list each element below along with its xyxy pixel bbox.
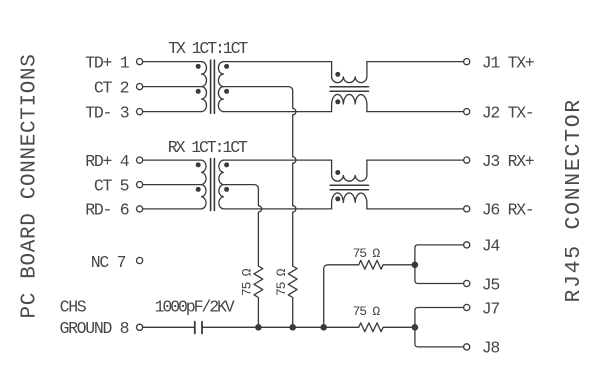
transformer T1 TX primary winding — [202, 62, 207, 112]
J8 circle — [464, 344, 470, 350]
svg-text:J8: J8 — [482, 339, 500, 358]
wire choke L1 to J2 — [367, 111, 464, 113]
ground bus wire with resistor R4 75 ohm — [202, 323, 415, 332]
wire T1 secondary top to choke L1 — [223, 61, 331, 63]
branch wire to resistor R3 75 ohm — [324, 260, 415, 327]
svg-text:J6 RX-: J6 RX- — [482, 201, 534, 220]
choke L1 top winding — [332, 62, 367, 83]
svg-text:GROUND 8: GROUND 8 — [59, 319, 128, 338]
wire pin4 to T2 primary — [143, 159, 202, 161]
svg-text:TD+ 1: TD+ 1 — [85, 53, 129, 72]
capacitor C1 plates — [195, 322, 202, 334]
T2 phase dot primary top — [196, 162, 201, 167]
svg-text:1000pF/2KV: 1000pF/2KV — [155, 298, 235, 317]
svg-text:J7: J7 — [482, 299, 500, 318]
L2 phase dot top — [335, 170, 340, 175]
svg-text:TD- 3: TD- 3 — [85, 103, 128, 122]
bracket J7 J8 — [415, 308, 464, 347]
J5 circle — [464, 280, 470, 286]
wire T1 secondary CT down to R2 with hops — [223, 87, 296, 266]
svg-text:CT 5: CT 5 — [94, 176, 129, 195]
wire T2 secondary CT down to R1 with hop — [223, 185, 261, 266]
svg-text:75 Ω: 75 Ω — [274, 268, 289, 296]
svg-text:75 Ω: 75 Ω — [353, 304, 381, 319]
pin 8 circle ground — [137, 324, 143, 330]
J6 circle — [464, 206, 470, 212]
pin 2 circle — [137, 84, 143, 90]
pin 6 circle — [137, 206, 143, 212]
transformer T1 core — [211, 60, 215, 113]
pin 7 circle NC — [137, 257, 143, 263]
wire T2 secondary top to choke L2 — [223, 159, 331, 161]
svg-text:RD+ 4: RD+ 4 — [85, 152, 129, 171]
wire choke L1 to J1 — [367, 61, 464, 63]
resistor R2 75 ohm vertical — [288, 266, 297, 327]
choke L1 core — [330, 87, 368, 91]
svg-text:TX 1CT:1CT: TX 1CT:1CT — [168, 39, 248, 58]
junction dot bus R1 — [255, 324, 262, 331]
wire pin2 to T1 primary CT — [143, 86, 202, 88]
wire choke L2 to J3 — [367, 159, 464, 161]
svg-text:CT 2: CT 2 — [94, 78, 129, 97]
svg-text:J4: J4 — [482, 237, 501, 256]
wire pin5 to T2 primary CT — [143, 184, 202, 186]
svg-text:NC 7: NC 7 — [91, 253, 126, 272]
L1 phase dot top — [335, 72, 340, 77]
svg-text:RJ45 CONNECTOR: RJ45 CONNECTOR — [562, 98, 586, 302]
svg-text:75 Ω: 75 Ω — [353, 246, 381, 261]
transformer T2 RX primary winding — [202, 160, 207, 209]
svg-text:RD- 6: RD- 6 — [85, 201, 128, 220]
junction dot bus branch — [320, 324, 327, 331]
choke L2 core — [330, 185, 368, 189]
resistor R1 75 ohm vertical — [254, 266, 263, 327]
svg-text:J1 TX+: J1 TX+ — [482, 53, 534, 72]
transformer T2 RX secondary winding — [219, 160, 224, 209]
T1 phase dot primary top — [196, 64, 201, 69]
junction dot J7 J8 bracket — [412, 324, 419, 331]
T1 phase dot primary CT — [196, 89, 201, 94]
J4 circle — [464, 242, 470, 248]
junction dot bus R2 — [289, 324, 296, 331]
J2 circle — [464, 109, 470, 115]
wire T1 secondary bottom to choke L1 — [223, 111, 331, 113]
J3 circle — [464, 157, 470, 163]
J7 circle — [464, 304, 470, 310]
bracket J4 J5 — [415, 245, 464, 284]
pin 1 circle — [137, 59, 143, 65]
pin 5 circle — [137, 182, 143, 188]
svg-text:J5: J5 — [482, 275, 500, 294]
choke L2 top winding — [332, 160, 367, 181]
transformer T2 core — [211, 159, 215, 211]
L1 phase dot bottom — [335, 99, 340, 104]
svg-text:J3 RX+: J3 RX+ — [482, 152, 534, 171]
wire T2 secondary bottom to choke L2 — [223, 208, 331, 210]
T2 phase dot secondary CT — [224, 187, 229, 192]
svg-text:RX 1CT:1CT: RX 1CT:1CT — [168, 138, 248, 157]
T2 phase dot secondary top — [224, 162, 229, 167]
svg-text:PC BOARD CONNECTIONS: PC BOARD CONNECTIONS — [19, 53, 42, 318]
T1 phase dot secondary CT — [224, 89, 229, 94]
junction dot J4 J5 bracket — [412, 262, 419, 269]
wire choke L2 to J6 — [367, 208, 464, 210]
T2 phase dot primary CT — [196, 187, 201, 192]
wire pin3 to T1 primary — [143, 111, 202, 113]
transformer T1 TX secondary winding — [218, 62, 223, 112]
wire pin6 to T2 primary — [143, 208, 202, 210]
pin 3 circle — [137, 109, 143, 115]
pin 4 circle — [137, 157, 143, 163]
svg-text:J2 TX-: J2 TX- — [482, 103, 534, 122]
choke L2 bottom winding — [332, 193, 367, 209]
svg-text:75 Ω: 75 Ω — [239, 268, 254, 296]
capacitor C1 left wire — [143, 326, 195, 328]
svg-text:CHS: CHS — [60, 297, 87, 316]
L2 phase dot bottom — [335, 196, 340, 201]
T1 phase dot secondary top — [224, 64, 229, 69]
J1 circle — [464, 59, 470, 65]
wire pin1 to T1 primary — [143, 61, 202, 63]
choke L1 bottom winding — [332, 94, 367, 111]
